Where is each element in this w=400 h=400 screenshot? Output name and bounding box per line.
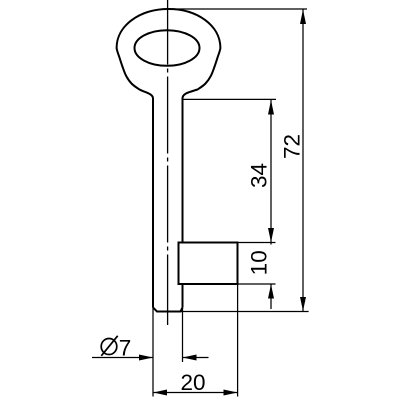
shaft right edge lower segment [182, 284, 184, 308]
label diameter 7 symbol slash [101, 336, 117, 356]
extension line key tip [180, 311, 309, 313]
svg-text:20: 20 [180, 370, 205, 395]
arrow diameter 7 right [183, 355, 197, 361]
arrow 34 top [268, 100, 274, 115]
extension line bit right down [237, 284, 239, 397]
key bow hole (inner ellipse) [135, 30, 200, 66]
centerline (vertical chain line through key axis) [167, 0, 169, 325]
svg-text:7: 7 [119, 336, 132, 361]
shaft right edge upper segment [182, 98, 184, 243]
arrow 10 bottom with tail [268, 284, 274, 298]
key bit rectangle [179, 243, 238, 285]
arrow 72 bottom [300, 297, 306, 311]
svg-text:34: 34 [247, 163, 272, 188]
extension line shaft right down [182, 308, 184, 363]
extension line bit bottom [238, 283, 276, 285]
shaft tip with chamfers [153, 308, 183, 312]
svg-text:10: 10 [247, 250, 272, 275]
dimension line 34 [270, 100, 272, 245]
shaft left edge [152, 98, 154, 308]
dimension line 72 [302, 10, 304, 312]
arrow diameter 7 left [139, 355, 153, 361]
arrow 72 top [300, 10, 306, 25]
label diameter 7 symbol circle [101, 339, 117, 355]
extension line bit top [238, 242, 276, 244]
extension line shaft left down [152, 308, 154, 397]
dimension line diameter 7 left with leader [92, 357, 153, 359]
dimension line 20 [153, 392, 237, 394]
extension line shaft/bow junction [183, 98, 276, 100]
key bow outer outline [117, 9, 221, 99]
arrow 34 bottom shared with 10 top [268, 228, 274, 242]
arrow 20 right [224, 390, 238, 396]
tail line of 10 bottom arrow [270, 284, 272, 309]
arrow 20 left [153, 390, 167, 396]
extension line top of bow [168, 8, 307, 10]
dimension line diameter 7 right tail [183, 357, 209, 359]
svg-text:72: 72 [280, 134, 305, 159]
